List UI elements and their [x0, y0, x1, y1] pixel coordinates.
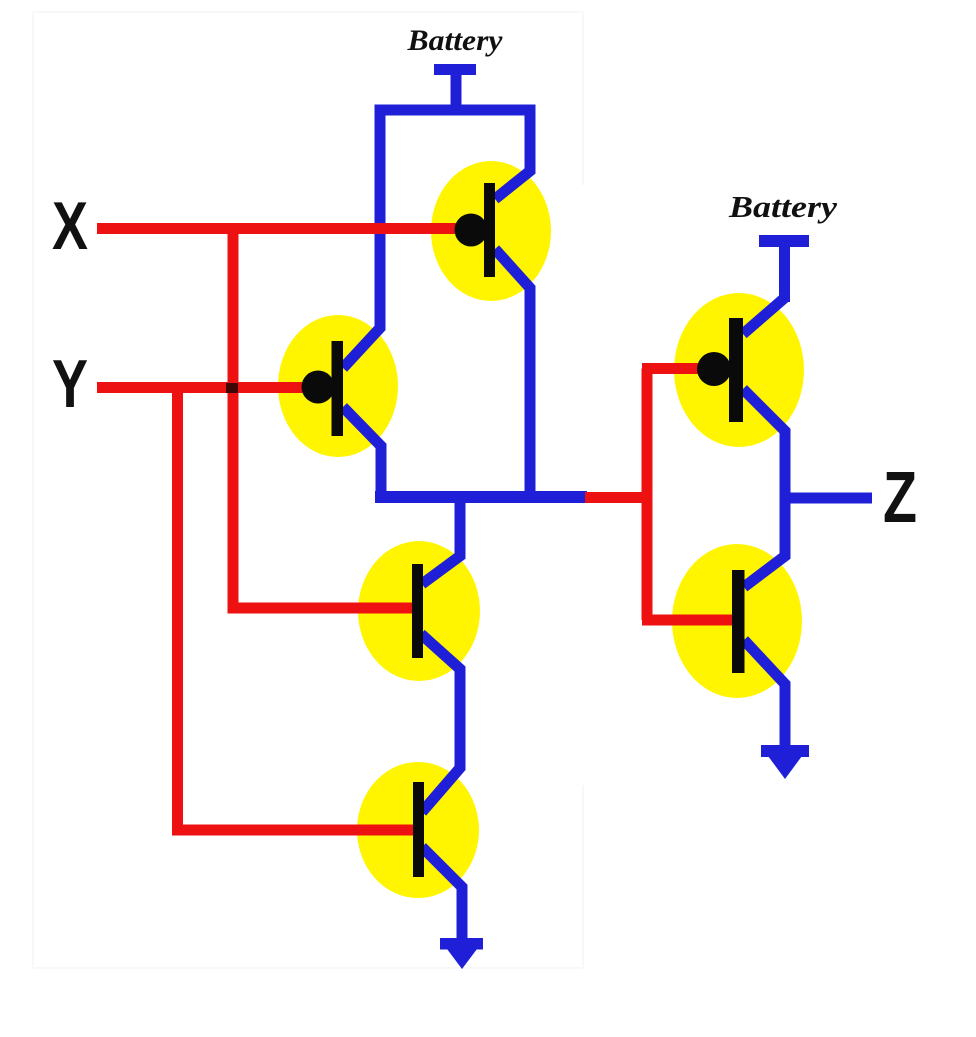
transistor Q1 highlight — [431, 161, 551, 301]
wire: output bar to Q3 collector — [422, 500, 460, 584]
ground G1 — [440, 938, 483, 969]
svg-text:X: X — [52, 188, 88, 264]
wire: Q1 emitter down right rail to output bar — [495, 249, 530, 495]
wire: Vcc loop top (Q2 collector to rail, top bar, rail to Q1 collector) — [343, 110, 530, 368]
ground G2 — [761, 745, 809, 779]
transistor Q5 (PNP) — [697, 318, 743, 422]
wire: Q6 emitter to ground — [744, 640, 785, 747]
image frame (faint) — [33, 12, 583, 968]
transistor Q4 highlight — [357, 762, 479, 898]
junction crossing mark — [226, 383, 238, 393]
transistor Q4 (NPN) — [413, 782, 424, 877]
wire: NAND output bar (blue) — [375, 491, 587, 503]
svg-text:Y: Y — [52, 346, 88, 422]
transistor Q6 (NPN) — [732, 570, 745, 673]
transistor Q2 highlight — [278, 315, 398, 457]
wire: input X (red) — [97, 223, 468, 234]
battery B1 terminal — [434, 64, 476, 115]
wire: input Y (red) — [97, 382, 310, 393]
wire: inverter input riser — [642, 369, 653, 621]
svg-text:Battery: Battery — [728, 189, 837, 224]
svg-text:Battery: Battery — [406, 24, 503, 57]
wire: riser to Q5 base — [642, 363, 702, 374]
transistor Q1 (PNP) — [455, 183, 496, 277]
wire: NAND output red link — [585, 492, 647, 503]
wire: Q4 emitter to ground — [422, 847, 462, 940]
transistor Q2 (PNP) — [302, 341, 344, 436]
battery B2 terminal — [759, 235, 809, 302]
wire: Y drop to Q4 base — [178, 388, 414, 831]
wire: riser to Q6 base — [642, 615, 732, 626]
wire: X drop to Q3 base — [233, 229, 415, 609]
wire: battery B2 to Q5 collector — [743, 298, 785, 334]
transistor Q5 highlight — [674, 293, 804, 447]
wire: Q5 emitter to Z rail and Q6 collector — [743, 389, 785, 587]
wire: Q2 emitter down left rail to output bar — [343, 407, 381, 495]
wire: output Z stub — [785, 493, 872, 504]
svg-text:Z: Z — [883, 458, 917, 538]
transistor Q3 (NPN) — [412, 564, 423, 658]
transistor Q3 highlight — [358, 541, 480, 681]
transistor Q6 highlight — [672, 544, 802, 698]
wire: Q3 emitter to Q4 collector — [421, 634, 460, 812]
